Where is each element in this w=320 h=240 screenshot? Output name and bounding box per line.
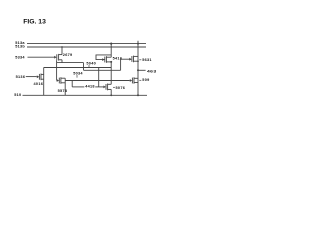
wire node62 horizontal	[57, 62, 84, 64]
transistor Q1 (2679) gate bar	[56, 54, 58, 60]
node bottom rail right	[137, 94, 139, 96]
svg-text:5034: 5034	[73, 72, 83, 76]
transistor Q1 channel bar	[58, 54, 60, 61]
transistor Q6 drain stub	[108, 83, 112, 85]
transistor Q3 source stub	[134, 60, 139, 62]
leader tick 5040	[88, 65, 90, 67]
wire Q1 gate drop / Q5 gate feed	[56, 60, 58, 80]
node bottom rail Q6	[110, 94, 112, 96]
node Q3 source stub	[137, 60, 139, 62]
transistor Q5 (5578) gate bar	[58, 78, 60, 84]
wire 533 gate feed	[28, 56, 55, 58]
transistor Q5 channel bar	[60, 77, 62, 84]
transistor Q2 channel bar	[105, 56, 107, 63]
transistor Q2 source stub	[106, 61, 111, 63]
transistor Q4b (4016) gate bar	[38, 74, 40, 80]
transistor Q5 source stub	[61, 82, 65, 84]
transistor Q4 source stub	[134, 82, 138, 84]
svg-text:5076: 5076	[116, 86, 126, 90]
transistor Q3 (5631) gate bar	[131, 56, 133, 62]
transistor Q4b source stub	[41, 78, 44, 80]
transistor Q5 drain stub	[61, 77, 65, 79]
leader dash 509	[139, 79, 141, 81]
transistor Q4 channel bar	[133, 77, 135, 84]
transistor Q6 (5076) gate bar	[105, 84, 107, 90]
transistor Q1 source stub	[59, 59, 62, 61]
arrow Q4b	[37, 75, 39, 78]
leader dash 5631	[139, 59, 141, 61]
svg-text:2679: 2679	[63, 53, 73, 57]
svg-text:5631: 5631	[142, 58, 152, 62]
wire Q2 gate loop	[96, 55, 111, 60]
wire H1	[44, 67, 112, 69]
svg-text:FIG. 13: FIG. 13	[23, 19, 46, 26]
leader tick 5034	[76, 75, 78, 78]
svg-text:5040: 5040	[86, 61, 96, 65]
transistor Q3 channel bar	[133, 56, 135, 63]
wire 536 gate feed	[26, 76, 37, 78]
node rail B / Q1	[61, 46, 63, 48]
wire right vertical	[137, 41, 139, 96]
transistor Q4 drain stub	[134, 77, 138, 79]
transistor Q6 source stub	[108, 88, 112, 90]
wire vertical to H2	[83, 63, 85, 71]
leader dash 5076	[113, 86, 115, 88]
svg-text:5136: 5136	[16, 75, 26, 79]
arrow Q1	[54, 56, 56, 59]
transistor Q1 drain stub	[59, 54, 62, 56]
wire Q6 gate horizontal	[72, 86, 84, 88]
arrow Q6	[103, 86, 105, 89]
svg-text:4418: 4418	[85, 85, 95, 89]
wire output stub 463	[138, 69, 146, 71]
node Q2 source	[110, 61, 112, 63]
arrow Q5	[57, 79, 59, 82]
transistor Q3 drain stub	[134, 55, 139, 57]
node rail A / Q2	[110, 43, 112, 45]
transistor Q2 (5416) gate bar	[104, 57, 106, 63]
wire Q2 drain to rail A	[110, 44, 112, 58]
wire Q1 drain to rail B	[61, 47, 63, 55]
wire Q6 source to bottom rail	[110, 89, 112, 95]
svg-text:509: 509	[142, 78, 149, 82]
wire vertical H1 to Q6 gate	[98, 68, 100, 87]
junction dots	[61, 43, 139, 97]
transistor Q4 (509) gate bar	[131, 78, 133, 84]
node output	[137, 69, 139, 71]
transistor Q2 drain stub	[106, 56, 111, 58]
bottom rail 510	[23, 94, 148, 96]
wire left box vertical	[43, 68, 45, 96]
arrow Q4	[130, 79, 132, 82]
svg-text:4016: 4016	[34, 82, 44, 86]
wire H2	[84, 69, 121, 71]
transistor Q4b channel bar	[40, 74, 42, 81]
rail A (top supply line)	[27, 43, 146, 45]
wire Q3 gate lead	[121, 58, 130, 60]
svg-text:510: 510	[14, 93, 21, 97]
svg-text:5578: 5578	[58, 89, 68, 93]
svg-text:5416: 5416	[113, 56, 123, 60]
transistor Q6 channel bar	[107, 84, 109, 91]
svg-text:5334: 5334	[15, 55, 25, 59]
leader ticks	[77, 60, 141, 88]
wire leg to Q6 gate	[71, 81, 73, 87]
arrow Q2	[102, 58, 104, 61]
svg-text:463: 463	[147, 70, 157, 74]
rail B (second supply line)	[27, 46, 146, 48]
node rail A / right	[137, 43, 139, 45]
svg-text:513b: 513b	[15, 45, 25, 49]
gate arrows	[37, 56, 132, 89]
wire Q1 source down	[61, 60, 63, 63]
wire Q2 source down to Q6 drain	[110, 62, 112, 84]
transistor Q4b drain stub	[41, 73, 44, 75]
arrow Q3	[129, 58, 131, 61]
wire vertical x120.6 to H2	[120, 59, 122, 70]
wire mid bus	[65, 80, 130, 82]
wire Q5 vertical to bottom rail	[64, 78, 66, 95]
